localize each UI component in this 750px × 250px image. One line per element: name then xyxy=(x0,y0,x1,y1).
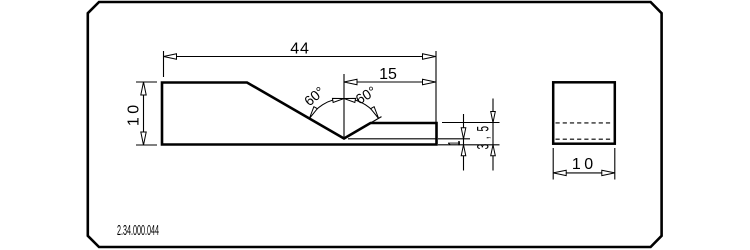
dim 44 extension left xyxy=(163,51,165,77)
svg-text:2.34.000.044: 2.34.000.044 xyxy=(117,222,159,239)
arc arrow right end xyxy=(371,107,379,119)
hidden line step level xyxy=(556,122,612,124)
svg-text:44: 44 xyxy=(290,41,309,58)
dim 3,5 arrow down xyxy=(491,112,496,123)
thin line 1mm level xyxy=(348,138,437,140)
dim 10 left arrow bottom xyxy=(141,132,146,145)
arc arrow center-left xyxy=(332,98,344,102)
angle arc xyxy=(309,99,378,119)
dim 10 bottom arrow right xyxy=(602,170,615,175)
dim 10 left arrow top xyxy=(141,82,146,95)
V center extension line xyxy=(343,74,345,139)
dim 3,5 line xyxy=(492,99,494,171)
hidden line thin level xyxy=(556,138,612,140)
arc arrow center-right xyxy=(344,98,356,102)
svg-text:1: 1 xyxy=(445,140,463,146)
dim 10 bottom arrow left xyxy=(553,170,566,175)
slope extension line xyxy=(371,117,382,123)
dim 44 arrow right xyxy=(423,54,436,59)
dim 1 arrow down xyxy=(461,128,466,139)
svg-text:10: 10 xyxy=(126,101,143,126)
dim 44/15 extension right xyxy=(435,51,437,123)
dim 15 arrow right xyxy=(423,79,436,84)
dim 15 line xyxy=(344,81,436,83)
sheet frame xyxy=(88,2,662,247)
right dims: extension bottom xyxy=(438,144,500,146)
dim 10 bottom extension lines xyxy=(552,148,554,180)
svg-text:3,5: 3,5 xyxy=(474,121,492,149)
right dims: extension thin level xyxy=(438,138,470,140)
right dims: extension step top xyxy=(442,122,500,124)
dim 15 arrow left xyxy=(344,79,357,84)
dim 1 text serif tick xyxy=(458,141,460,145)
dim 44 line xyxy=(164,56,436,58)
dim 10 left line xyxy=(143,82,145,145)
dim 3,5 arrow up xyxy=(491,145,496,156)
dim 10 bottom line xyxy=(553,172,615,174)
arc arrow left end xyxy=(309,107,317,119)
svg-text:10: 10 xyxy=(572,156,597,173)
svg-text:15: 15 xyxy=(379,66,397,83)
dim 1 arrow up xyxy=(461,145,466,156)
part outline (main view) xyxy=(162,83,437,145)
dim 10 left extension lines xyxy=(136,81,157,83)
dim 44 arrow left xyxy=(164,54,177,59)
dim 1 line xyxy=(463,114,465,171)
end view square xyxy=(553,82,615,143)
